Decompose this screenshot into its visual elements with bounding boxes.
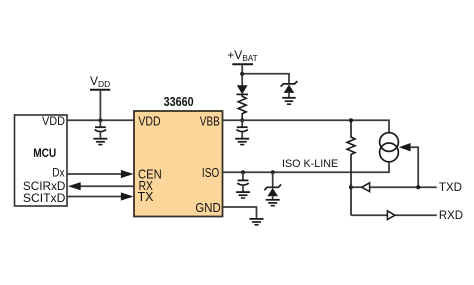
MCU pin Dx label (52, 166, 64, 180)
IC pin GND label (195, 201, 220, 215)
IC U1 33660 box (134, 111, 223, 217)
label VDD supply (90, 74, 110, 89)
svg-text:33660: 33660 (164, 94, 194, 109)
capacitor C3 (237, 172, 249, 192)
svg-text:MCU: MCU (33, 146, 56, 160)
ground G6 (250, 219, 264, 225)
wire VBAT branch to zener (242, 74, 289, 84)
label RXD (439, 208, 464, 222)
node VBAT branch junction (240, 72, 244, 76)
IC pin CEN label (138, 167, 162, 181)
node R1 VBB junction (240, 118, 244, 122)
svg-text:VBB: VBB (200, 115, 220, 129)
svg-text:VDD: VDD (42, 116, 65, 128)
MCU box (15, 115, 68, 206)
ground G5 (266, 200, 280, 206)
node VDD junction (98, 118, 102, 122)
MCU label (33, 146, 56, 160)
capacitor C2 (236, 120, 248, 138)
MCU pin SCITxD label (23, 191, 66, 205)
svg-text:SCITxD: SCITxD (23, 191, 66, 205)
label TXD (439, 180, 462, 194)
wire Dx to CEN (67, 170, 134, 178)
svg-text:TXD: TXD (439, 180, 462, 194)
ground G1 (93, 139, 107, 145)
label +VBAT supply (227, 48, 257, 63)
wire VDD net MCU to IC (67, 119, 134, 121)
svg-text:VDD: VDD (138, 115, 160, 129)
node TXD junction left (349, 185, 353, 189)
IC pin RX label (139, 179, 154, 193)
IC pin VDD label (138, 115, 160, 129)
buffer RXD triangle (387, 211, 395, 220)
IC pin VBB label (200, 115, 220, 129)
power rail VDD (90, 90, 110, 121)
svg-text:RXD: RXD (439, 208, 464, 222)
IC pin TX label (138, 190, 154, 204)
wire SCITxD to TX (67, 192, 134, 200)
IC label 33660 (164, 94, 194, 109)
node VBB pullup junction (349, 118, 353, 122)
svg-text:ISO: ISO (202, 166, 220, 180)
IC pin ISO label (202, 166, 220, 180)
ground G2 (235, 139, 249, 145)
zener diode Z2 (264, 172, 281, 199)
node TXD junction right (416, 185, 420, 189)
MCU pin VDD label (42, 116, 65, 128)
wire VBB net (223, 120, 390, 132)
wire RXD (351, 214, 437, 216)
buffer TXD triangle (362, 183, 370, 192)
svg-text:GND: GND (195, 201, 220, 215)
wire GND pin trace (223, 207, 257, 219)
wire RX to SCIRxD (68, 182, 134, 190)
wire TXD (351, 186, 437, 188)
MCU pin SCIRxD label (23, 179, 66, 193)
node ISO cap junction (241, 170, 245, 174)
capacitor C1 (95, 120, 107, 138)
svg-text:TX: TX (138, 190, 154, 204)
current source Q1 (380, 133, 411, 162)
resistor R2 pullup (347, 120, 355, 215)
ground G4 (236, 192, 250, 198)
wire ISO net (223, 162, 390, 173)
resistor R1 (238, 94, 246, 120)
power rail +VBAT (232, 64, 253, 85)
ground G3 (282, 98, 295, 104)
wire current source control (410, 147, 418, 187)
node ISO zener junction (271, 170, 275, 174)
label ISO K-LINE (282, 158, 338, 170)
diode D1 (237, 85, 249, 94)
zener diode Z1 (281, 81, 298, 97)
svg-text:ISO K-LINE: ISO K-LINE (282, 158, 338, 170)
svg-text:Dx: Dx (52, 166, 64, 180)
